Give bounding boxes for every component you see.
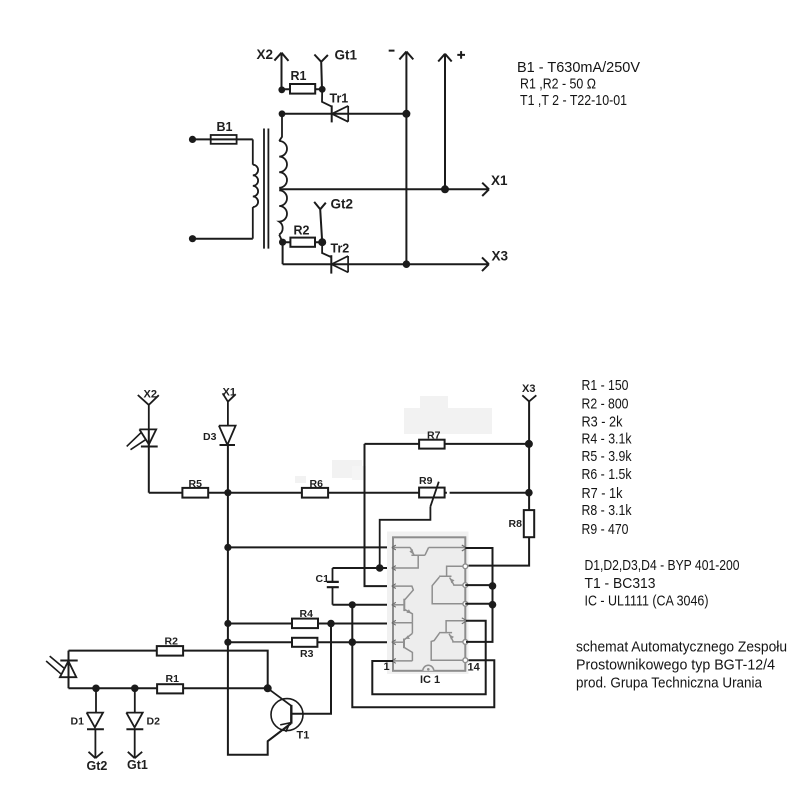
- diode D2: [126, 688, 143, 758]
- resistor R2 (bottom): [157, 646, 183, 656]
- wire: C1 bottom to IC pin (left 4): [333, 604, 394, 606]
- junction: R1/R2/T1 base: [264, 684, 272, 692]
- IC pin circles right: [463, 564, 468, 663]
- wire: X1 output line (centre tap): [279, 183, 489, 196]
- wire: T1 collector leg: [291, 624, 331, 714]
- IC internal transistor QB (mid right): [432, 566, 465, 604]
- svg-text:R8: R8: [509, 518, 523, 530]
- resistor R6: [302, 488, 328, 498]
- wire: X3 vertical: [528, 401, 530, 510]
- junction: C1 line / pin14 net vertical: [349, 601, 356, 608]
- resistor R5: [182, 488, 208, 498]
- diode D4b (gate branch): [46, 651, 78, 689]
- wire: R1 line (bottom): [69, 687, 268, 689]
- junction: Gt2 / R2 right: [318, 238, 326, 246]
- svg-text:X3: X3: [522, 383, 535, 395]
- junction: right vertical / pin R3: [489, 582, 497, 590]
- junction: R1 line / D2: [131, 685, 139, 693]
- svg-text:T1: T1: [297, 729, 310, 741]
- svg-text:R7: R7: [427, 429, 441, 441]
- svg-text:D2: D2: [147, 715, 161, 727]
- svg-text:R8 - 3.1k: R8 - 3.1k: [582, 502, 632, 519]
- junction: R9 wiper / pin L2 wire: [376, 564, 384, 572]
- svg-text:14: 14: [468, 661, 481, 673]
- junction: X1 / R4 line: [224, 620, 231, 627]
- terminal X3 (bottom): [522, 395, 536, 401]
- svg-text:R9: R9: [419, 475, 433, 487]
- svg-text:R9 - 470: R9 - 470: [582, 521, 629, 538]
- resistor R4: [292, 619, 318, 629]
- terminal X2 (top): [274, 53, 288, 90]
- wire: X1 to IC pin (left 1): [228, 546, 393, 548]
- junction: X1 / pin L1 wire: [224, 544, 231, 551]
- resistor R8: [524, 510, 534, 537]
- IC pin ticks left: [392, 545, 396, 663]
- terminal dot: B1 input top: [189, 136, 196, 143]
- junction: Tr2 line / minus bus bottom: [403, 260, 411, 268]
- transistor T1: [268, 688, 303, 741]
- svg-text:X1: X1: [223, 387, 236, 399]
- wire: Tr2 line to X3: [283, 257, 489, 271]
- wiper of R9: [380, 482, 439, 568]
- fuse B1: [193, 138, 253, 140]
- wire: R2 line (bottom): [69, 651, 268, 689]
- IC pin ticks right: [462, 545, 467, 624]
- junction: X1 / R3 line: [224, 639, 231, 646]
- junction: R4 / T1 collector leg: [327, 620, 335, 628]
- svg-text:R3: R3: [300, 648, 314, 660]
- svg-text:X3: X3: [492, 249, 509, 264]
- wire: main bus (R5/R6/R9 line): [149, 492, 529, 494]
- resistor R3: [292, 638, 317, 647]
- junction: main bus / X3: [525, 489, 533, 497]
- svg-text:R6 - 1.5k: R6 - 1.5k: [582, 466, 632, 483]
- svg-text:Prostownikowego typ BGT-12/4: Prostownikowego typ BGT-12/4: [576, 657, 775, 674]
- thyristor Tr1: [322, 89, 348, 122]
- svg-text:D1: D1: [71, 715, 85, 727]
- junction: X2 / R1 left: [278, 86, 285, 93]
- svg-text:prod. Grupa Techniczna Urania: prod. Grupa Techniczna Urania: [576, 675, 763, 692]
- svg-text:Gt1: Gt1: [335, 48, 358, 63]
- resistor R1 (top): [282, 88, 323, 90]
- IC internal transistor QD (bottom left): [393, 633, 412, 661]
- junction: secondary top / Tr1 line: [279, 110, 286, 117]
- diode D3: [219, 426, 236, 445]
- thyristor Tr2: [322, 242, 348, 273]
- svg-text:B1: B1: [217, 120, 233, 134]
- svg-text:R1: R1: [291, 69, 307, 83]
- svg-text:C1: C1: [316, 573, 330, 585]
- wire: R7 line: [365, 443, 529, 445]
- IC bottom notch: [423, 665, 434, 671]
- transformer secondary winding: [279, 114, 287, 242]
- svg-text:D1,D2,D3,D4 - BYP 401-200: D1,D2,D3,D4 - BYP 401-200: [585, 557, 740, 574]
- svg-text:IC 1: IC 1: [420, 674, 440, 686]
- wire: R7 left leg to IC pin (left 3): [365, 444, 394, 586]
- resistor R2 (top): [283, 241, 323, 243]
- svg-text:R2: R2: [294, 224, 310, 238]
- svg-text:R2 - 800: R2 - 800: [582, 395, 629, 412]
- svg-text:D3: D3: [203, 431, 217, 443]
- svg-text:B1 - T630mA/250V: B1 - T630mA/250V: [517, 59, 640, 76]
- svg-text:T1 ,T 2 - T22-10-01: T1 ,T 2 - T22-10-01: [520, 92, 627, 109]
- wire: C1 top / R9 wiper to IC pin (left 2): [333, 567, 394, 569]
- wire: pin14 net (left vertical + bottom run to right pin 7): [352, 605, 494, 708]
- svg-text:X2: X2: [257, 47, 274, 62]
- IC internal transistor QC (mid left): [393, 586, 413, 623]
- junction: plus bus / X1 line: [441, 185, 449, 193]
- resistor R1 (bottom): [157, 684, 183, 693]
- svg-text:T1 - BC313: T1 - BC313: [585, 575, 656, 592]
- wire: secondary bottom to Tr2 line: [282, 242, 284, 264]
- terminal dot: input bottom: [189, 235, 196, 242]
- svg-text:schemat Automatycznego Zespołu: schemat Automatycznego Zespołu: [576, 639, 787, 656]
- IC internal transistor QA (top left): [393, 548, 465, 569]
- junction: main bus / X1: [224, 489, 231, 496]
- plus output terminal: [438, 51, 465, 61]
- wire: input bottom to primary: [193, 238, 253, 240]
- junction: R1 line / D1: [92, 685, 100, 693]
- svg-text:R2: R2: [165, 636, 179, 648]
- svg-text:Gt1: Gt1: [127, 758, 148, 772]
- junction: R3 line / pin14 net: [349, 638, 357, 646]
- terminal Gt2 (top): [314, 202, 326, 242]
- potentiometer R9: [419, 488, 445, 498]
- terminal X2 (bottom): [138, 395, 159, 429]
- junction: Tr1 line / minus bus: [402, 110, 410, 118]
- wire: R3 line: [228, 641, 393, 643]
- svg-text:Gt2: Gt2: [87, 759, 108, 773]
- diode D1: [87, 688, 104, 758]
- junction: secondary bottom / R2 left: [279, 239, 286, 246]
- IC internal transistor QE (bottom right): [431, 621, 465, 660]
- resistor R7: [419, 440, 445, 449]
- svg-text:R5: R5: [189, 478, 203, 490]
- svg-text:R1: R1: [166, 673, 180, 685]
- svg-text:R5 - 3.9k: R5 - 3.9k: [582, 448, 632, 465]
- svg-text:R6: R6: [310, 478, 324, 490]
- junction: R7 / X3: [525, 440, 533, 448]
- wire: pin R1 stub to pins R3/R4/R6 vertical: [465, 548, 492, 642]
- IC pin L5 internal run: [393, 623, 412, 634]
- svg-text:R4: R4: [300, 608, 314, 620]
- svg-text:1: 1: [384, 661, 390, 673]
- svg-text:IC - UL1111 (CA 3046): IC - UL1111 (CA 3046): [585, 593, 709, 610]
- svg-text:R4 - 3.1k: R4 - 3.1k: [582, 430, 632, 447]
- junction: right vertical / pin R4: [489, 601, 497, 609]
- IC U1 (UL1111) body: [387, 532, 469, 675]
- wire: pin R5 to pin 1 loop: [372, 621, 485, 694]
- wire: R8 to IC pin (right 2): [466, 537, 529, 565]
- svg-text:Tr1: Tr1: [330, 92, 349, 106]
- svg-text:R3 - 2k: R3 - 2k: [582, 413, 623, 430]
- terminal X1 (bottom): [223, 393, 236, 425]
- svg-text:Tr2: Tr2: [331, 242, 350, 256]
- svg-text:R1 ,R2 - 50 Ω: R1 ,R2 - 50 Ω: [520, 76, 596, 93]
- wire: Tr1 anode-cathode line: [282, 113, 406, 115]
- wire: plus bus vertical: [444, 54, 446, 190]
- wire: X1 vertical: [228, 445, 291, 755]
- transformer core: [264, 129, 268, 249]
- junction: Gt1 / R1 right: [319, 86, 326, 93]
- svg-text:R7 - 1k: R7 - 1k: [582, 485, 623, 502]
- svg-text:R1 - 150: R1 - 150: [582, 377, 629, 394]
- wire: minus bus vertical: [405, 52, 407, 265]
- svg-text:X2: X2: [144, 389, 157, 401]
- terminal Gt1 (top): [314, 55, 328, 90]
- wire: R4 line: [228, 623, 393, 625]
- svg-text:X1: X1: [491, 173, 508, 188]
- capacitor C1: [327, 568, 339, 605]
- diode D4 (X2 branch): [127, 429, 158, 492]
- minus output terminal: [389, 51, 414, 60]
- svg-text:Gt2: Gt2: [331, 197, 354, 212]
- transformer primary winding: [253, 139, 258, 238]
